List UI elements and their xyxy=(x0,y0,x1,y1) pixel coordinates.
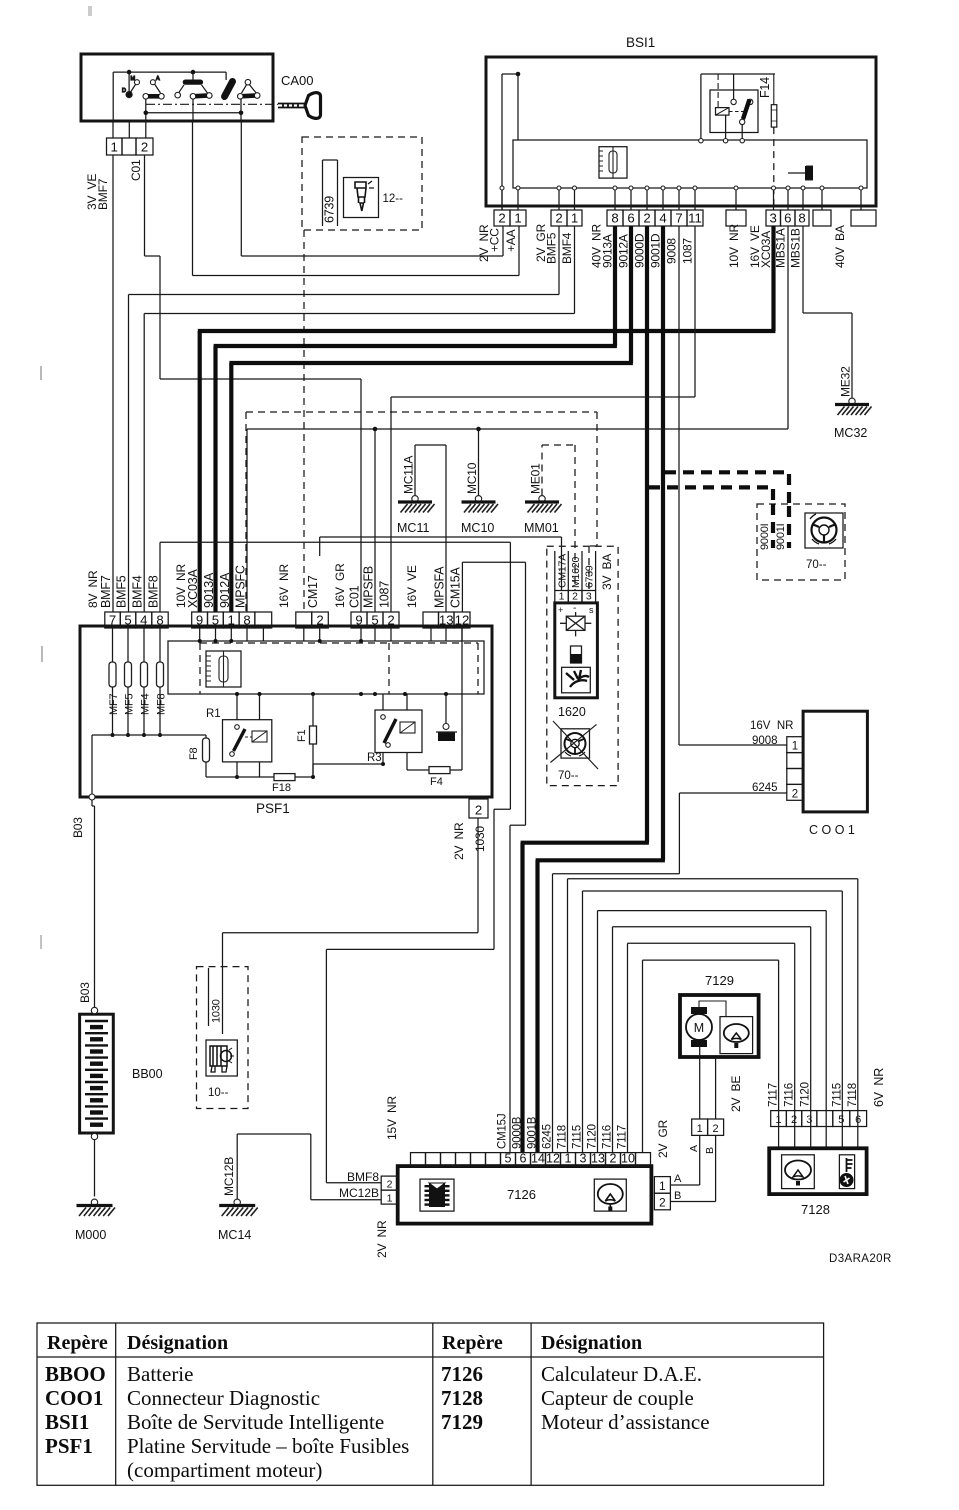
svg-text:2: 2 xyxy=(387,1179,393,1191)
svg-text:+: + xyxy=(558,605,563,615)
svg-text:Moteur d’assistance: Moteur d’assistance xyxy=(541,1410,710,1434)
wire MBS1B to ground MC32 xyxy=(802,226,804,313)
dashed heavy branch 9000I to 70-- xyxy=(649,485,773,489)
svg-text:1: 1 xyxy=(565,1152,572,1166)
svg-text:1087: 1087 xyxy=(681,238,695,264)
svg-text:MPSFA: MPSFA xyxy=(433,566,447,608)
alternator icon 10-- xyxy=(206,1040,237,1076)
svg-text:M: M xyxy=(694,1021,704,1035)
wire 9000D (heavy) down to 7126 xyxy=(645,226,649,843)
svg-text:F8: F8 xyxy=(188,747,200,760)
svg-text:C01: C01 xyxy=(348,585,362,608)
svg-text:1: 1 xyxy=(697,1123,703,1135)
svg-text:MC10: MC10 xyxy=(465,462,479,494)
svg-text:R3: R3 xyxy=(367,752,382,764)
key symbol of CA00 xyxy=(278,93,321,119)
svg-text:1: 1 xyxy=(571,211,578,226)
svg-text:8V NR: 8V NR xyxy=(86,570,100,608)
steering wheel icon in 70-- xyxy=(805,513,843,548)
wire 7116 xyxy=(612,927,614,1153)
svg-text:MC10: MC10 xyxy=(461,521,494,535)
svg-text:M: M xyxy=(131,76,136,82)
svg-text:CM17A: CM17A xyxy=(557,554,569,588)
svg-text:BMF8: BMF8 xyxy=(147,575,161,608)
svg-text:2V NR: 2V NR xyxy=(375,1220,389,1258)
svg-text:10V NR: 10V NR xyxy=(174,564,188,608)
svg-text:9000D: 9000D xyxy=(633,233,647,268)
7128 pin stubs xyxy=(778,1127,780,1149)
BSI1 connector 16V VE (3,6,8) xyxy=(766,210,781,226)
wire 9001D (heavy) down to 7126 xyxy=(661,226,665,860)
svg-text:7117: 7117 xyxy=(768,1083,780,1107)
7126 right connector cells 1/2 xyxy=(654,1177,670,1194)
svg-text:A: A xyxy=(688,1145,700,1152)
svg-text:2: 2 xyxy=(387,613,394,628)
svg-text:ME32: ME32 xyxy=(839,366,853,397)
svg-text:MC11A: MC11A xyxy=(402,456,416,494)
svg-text:+AA: +AA xyxy=(504,229,518,252)
svg-text:10--: 10-- xyxy=(208,1087,229,1099)
svg-text:Connecteur Diagnostic: Connecteur Diagnostic xyxy=(127,1386,320,1410)
svg-text:2: 2 xyxy=(572,590,578,602)
svg-text:2: 2 xyxy=(316,613,323,628)
svg-text:10V NR: 10V NR xyxy=(727,224,741,268)
svg-text:10: 10 xyxy=(621,1152,635,1166)
svg-text:7117: 7117 xyxy=(616,1125,628,1149)
svg-text:C01: C01 xyxy=(129,159,143,181)
PSF1 connector 16V VE (-,13,12) xyxy=(423,612,439,628)
svg-text:6245: 6245 xyxy=(541,1124,553,1149)
svg-text:2: 2 xyxy=(475,803,482,818)
svg-text:7116: 7116 xyxy=(601,1125,613,1149)
motor 7129 box xyxy=(680,995,759,1057)
wire 6245 from 7126 to COO1 xyxy=(552,874,554,1153)
CA00 lower internal wire xyxy=(145,99,147,138)
svg-text:F1: F1 xyxy=(296,729,308,742)
svg-text:Platine Servitude – boîte Fusi: Platine Servitude – boîte Fusibles xyxy=(127,1434,409,1458)
svg-text:3: 3 xyxy=(586,590,592,602)
svg-text:BB00: BB00 xyxy=(132,1067,163,1081)
svg-text:15V NR: 15V NR xyxy=(385,1096,399,1140)
PSF1 connector 16V GR (9,5,2) xyxy=(351,612,367,628)
svg-text:(compartiment moteur): (compartiment moteur) xyxy=(127,1458,322,1482)
svg-text:2: 2 xyxy=(792,788,798,800)
wire 9008 to COO1 xyxy=(678,226,680,745)
torque sensor 7128 box xyxy=(769,1148,866,1194)
svg-text:7120: 7120 xyxy=(586,1124,598,1149)
BSI1 pin stubs to connectors xyxy=(501,190,503,210)
svg-text:70--: 70-- xyxy=(558,770,579,782)
svg-text:9001B: 9001B xyxy=(526,1116,538,1149)
svg-text:D3ARA20R: D3ARA20R xyxy=(829,1253,892,1265)
BSI1 connector blank box xyxy=(813,210,831,226)
svg-text:7126: 7126 xyxy=(441,1362,483,1386)
injector icon 12-- xyxy=(344,178,379,218)
wire to ground MC10 xyxy=(478,429,480,496)
svg-text:70--: 70-- xyxy=(806,559,827,571)
svg-text:9013A: 9013A xyxy=(202,572,216,608)
svg-text:MC11: MC11 xyxy=(397,521,429,535)
svg-text:2: 2 xyxy=(610,1152,617,1166)
svg-text:BSI1: BSI1 xyxy=(626,35,655,50)
svg-text:9013A: 9013A xyxy=(601,234,615,268)
svg-text:8: 8 xyxy=(243,613,250,628)
svg-text:R1: R1 xyxy=(206,708,221,720)
7128 connector cells xyxy=(771,1111,787,1127)
wire 1087 xyxy=(694,226,696,397)
PSF1 fuse icon xyxy=(206,651,241,687)
svg-text:6739: 6739 xyxy=(323,196,337,223)
svg-text:7129: 7129 xyxy=(705,973,734,988)
svg-text:M000: M000 xyxy=(75,1228,106,1242)
svg-text:BMF5: BMF5 xyxy=(545,232,559,264)
CA00 internal wire top rail xyxy=(113,71,226,73)
svg-text:8: 8 xyxy=(156,613,163,628)
svg-text:13: 13 xyxy=(591,1152,605,1166)
svg-text:CM17: CM17 xyxy=(306,575,320,608)
wire B03 to battery xyxy=(91,800,93,806)
svg-text:BMF7: BMF7 xyxy=(96,178,110,210)
PSF1 connector 10V NR (9,5,1,8,-) xyxy=(192,612,208,628)
svg-text:16V NR: 16V NR xyxy=(277,564,291,608)
ground MC32 xyxy=(849,398,855,404)
COO1 pin cells xyxy=(787,737,803,753)
svg-text:MM01: MM01 xyxy=(524,521,559,535)
svg-text:5: 5 xyxy=(838,1114,844,1126)
svg-text:16V NR: 16V NR xyxy=(750,720,793,732)
7126 IC icon xyxy=(420,1179,454,1211)
svg-text:7116: 7116 xyxy=(784,1083,796,1107)
svg-text:Capteur de couple: Capteur de couple xyxy=(541,1386,694,1410)
svg-text:2V GR: 2V GR xyxy=(656,1119,670,1158)
svg-text:Désignation: Désignation xyxy=(127,1332,228,1354)
svg-text:XC03A: XC03A xyxy=(186,569,200,608)
svg-text:7118: 7118 xyxy=(556,1125,568,1149)
svg-text:1: 1 xyxy=(776,1114,782,1126)
svg-text:1: 1 xyxy=(228,613,235,628)
svg-text:6245: 6245 xyxy=(752,782,778,794)
svg-text:9012A: 9012A xyxy=(218,572,232,608)
svg-text:6: 6 xyxy=(520,1152,527,1166)
svg-text:7126: 7126 xyxy=(507,1187,536,1202)
PSF1 inner dashed rect xyxy=(199,643,201,694)
BSI1 diode component xyxy=(788,172,805,174)
svg-text:B: B xyxy=(704,1147,716,1154)
1620 label columns CM17A M1620 6739 xyxy=(554,551,556,591)
7129 gauge icon xyxy=(720,1017,753,1054)
svg-text:1030: 1030 xyxy=(211,999,223,1023)
svg-text:7115: 7115 xyxy=(832,1083,844,1107)
svg-text:1: 1 xyxy=(387,1193,393,1205)
BSI1 relay and F14 feed rail xyxy=(700,74,702,140)
dashed option box 10-- (alternator 1030) xyxy=(197,967,249,1109)
svg-text:PSF1: PSF1 xyxy=(45,1434,93,1458)
svg-text:9000I: 9000I xyxy=(759,523,771,550)
svg-text:7128: 7128 xyxy=(441,1386,483,1410)
svg-text:COO1: COO1 xyxy=(45,1386,103,1410)
svg-text:2: 2 xyxy=(791,1114,797,1126)
7126 left connector cells 2/1 xyxy=(381,1176,398,1190)
svg-text:11: 11 xyxy=(688,211,702,226)
svg-text:1: 1 xyxy=(659,1179,666,1193)
7129 motor M xyxy=(686,1014,712,1040)
BSI1 connector 40V BA (blank) xyxy=(851,210,876,226)
svg-text:13: 13 xyxy=(439,613,454,628)
svg-text:MC12B: MC12B xyxy=(222,1157,236,1196)
svg-text:B: B xyxy=(674,1190,681,1202)
wire CM15A from PSF1 pin E12 to 7126 CM15J xyxy=(461,562,463,612)
svg-text:6: 6 xyxy=(627,211,634,226)
7128 sensor icon xyxy=(839,1155,854,1189)
wire C01 from C01 pin2 to PSF1 xyxy=(144,155,146,256)
svg-text:9: 9 xyxy=(355,613,362,628)
svg-text:CM15A: CM15A xyxy=(449,566,463,608)
svg-text:9001I: 9001I xyxy=(775,523,787,550)
ground MC10 xyxy=(475,496,481,502)
BSI1 fuse icon xyxy=(599,147,627,178)
svg-text:BBOO: BBOO xyxy=(45,1362,106,1386)
CA00 switch 1 (M/A/D) xyxy=(128,72,130,95)
svg-text:F18: F18 xyxy=(272,782,291,794)
svg-text:12--: 12-- xyxy=(383,193,404,205)
svg-text:2V NR: 2V NR xyxy=(452,822,466,860)
PSF1 connector 8V NR (7,5,4,8) xyxy=(105,612,121,628)
svg-text:1: 1 xyxy=(514,211,521,226)
svg-text:5: 5 xyxy=(505,1152,512,1166)
BSI1 wire +AA/+CC riser xyxy=(501,74,503,210)
svg-text:7129: 7129 xyxy=(441,1410,483,1434)
svg-text:6: 6 xyxy=(784,211,791,226)
crossed steering icon 70-- xyxy=(561,729,590,758)
connector C01 below CA00 xyxy=(107,138,123,155)
wire 1030 from PSF1 to box 10-- xyxy=(477,818,479,933)
svg-text:PSF1: PSF1 xyxy=(256,801,290,816)
svg-text:1087: 1087 xyxy=(378,581,392,608)
svg-text:3: 3 xyxy=(770,211,777,226)
svg-text:1: 1 xyxy=(792,741,798,753)
svg-text:Calculateur D.A.E.: Calculateur D.A.E. xyxy=(541,1362,702,1386)
svg-text:16V VE: 16V VE xyxy=(405,565,419,608)
7129 wires to connector xyxy=(699,1047,701,1119)
svg-text:Repère: Repère xyxy=(442,1332,503,1354)
svg-text:2: 2 xyxy=(659,1196,666,1210)
svg-text:MF7: MF7 xyxy=(108,694,120,715)
svg-text:14: 14 xyxy=(531,1152,545,1166)
fuse F18 xyxy=(206,776,274,778)
svg-text:6739: 6739 xyxy=(584,565,596,588)
ignition switch CA00 xyxy=(81,54,273,121)
svg-text:+CC: +CC xyxy=(488,228,502,252)
wire BMF5 xyxy=(558,226,560,295)
svg-text:6: 6 xyxy=(855,1114,861,1126)
PSF1 fuses MF7 MF5 MF4 MF8 xyxy=(112,628,114,662)
dashed option box 6739 (top) xyxy=(302,137,422,230)
svg-text:8: 8 xyxy=(798,211,805,226)
svg-text:C O O 1: C O O 1 xyxy=(809,823,855,837)
1620 battery symbol xyxy=(571,646,582,663)
svg-text:s: s xyxy=(589,605,594,615)
svg-text:9012A: 9012A xyxy=(617,234,631,268)
CA00 switch 3 xyxy=(225,82,233,97)
BSI1 relay box xyxy=(710,90,758,133)
BSI1 connector 10V NR (blank) xyxy=(726,210,746,226)
1620 inner box xyxy=(555,603,598,698)
junction dots on inner rect xyxy=(198,639,202,643)
6739 label column xyxy=(322,160,324,226)
svg-text:3V BA: 3V BA xyxy=(600,554,614,590)
wires 7126 A/B to 7129 xyxy=(670,1184,699,1186)
wire CM17 to 1620 xyxy=(319,537,321,556)
dashed wire 6739 down to PSF1 xyxy=(303,230,305,612)
svg-text:7: 7 xyxy=(675,211,682,226)
dashed option box 1620 (outer) xyxy=(547,546,618,785)
calculator 7126 box xyxy=(398,1166,652,1224)
svg-text:MPSFC: MPSFC xyxy=(234,565,248,608)
svg-text:MBS1B: MBS1B xyxy=(789,228,803,268)
svg-text:XC03A: XC03A xyxy=(759,231,773,268)
svg-text:40V BA: 40V BA xyxy=(833,225,847,268)
BSI1 bottom rail pin circles xyxy=(500,186,504,190)
wire 7120 xyxy=(597,911,599,1153)
svg-text:MF8: MF8 xyxy=(156,694,168,715)
wire 9012A (heavy) xyxy=(629,226,633,363)
svg-text:M1620: M1620 xyxy=(570,557,582,588)
svg-text:BMF5: BMF5 xyxy=(115,575,129,608)
diagnostic connector COO1 xyxy=(803,711,867,812)
BSI1 relay coil xyxy=(716,108,730,116)
legend table xyxy=(37,1323,824,1485)
CA00 mechanical link to key xyxy=(146,103,278,105)
svg-text:BMF8: BMF8 xyxy=(347,1170,379,1184)
svg-text:F4: F4 xyxy=(430,776,443,788)
svg-text:Batterie: Batterie xyxy=(127,1362,193,1386)
wire spare to 7128 pin1 xyxy=(642,960,644,1153)
svg-text:7115: 7115 xyxy=(571,1125,583,1149)
svg-text:MF4: MF4 xyxy=(140,694,152,715)
svg-text:B03: B03 xyxy=(71,817,85,838)
7129 connector cells 1/2 xyxy=(692,1119,708,1135)
PSF1 bottom connector 2V NR (1030) xyxy=(469,799,488,818)
wire 7118 xyxy=(567,879,569,1153)
wire 9013A (heavy) xyxy=(613,226,617,346)
wire MBS1A / ground bus xyxy=(787,226,789,429)
ground MM01 xyxy=(539,496,545,502)
1620 clip icon xyxy=(562,667,591,693)
ground MC14 xyxy=(236,1134,238,1201)
battery BB00 xyxy=(80,1014,114,1133)
svg-text:5: 5 xyxy=(212,613,219,628)
1620 connector cells 1 2 3 xyxy=(555,591,569,603)
dashed heavy branch 9001I to 70-- xyxy=(665,470,789,474)
PSF1 pin wires into inner rect xyxy=(199,628,201,641)
svg-text:2: 2 xyxy=(643,211,650,226)
svg-text:9008: 9008 xyxy=(665,238,679,264)
svg-text:7128: 7128 xyxy=(801,1202,830,1217)
1620 lamp symbol xyxy=(560,612,591,636)
svg-text:B03: B03 xyxy=(78,982,92,1003)
BSI1 relay contact xyxy=(731,99,736,104)
fuse F4 xyxy=(407,769,429,771)
svg-text:MC12B: MC12B xyxy=(339,1186,379,1200)
svg-text:1: 1 xyxy=(559,590,565,602)
BSI1 connector 2V GR (BMF5,BMF4) xyxy=(551,210,567,226)
wire XC03A (heavy) xyxy=(771,226,775,331)
7126 gauge icon xyxy=(594,1179,626,1211)
svg-text:CM15J: CM15J xyxy=(496,1114,508,1149)
svg-text:MC32: MC32 xyxy=(834,426,867,440)
PSF1 inner bus rect xyxy=(168,641,484,694)
wire +AA from CA00 to BSI1 xyxy=(192,121,194,276)
svg-text:A: A xyxy=(674,1173,682,1185)
svg-text:2: 2 xyxy=(555,211,562,226)
svg-text:ME01: ME01 xyxy=(529,463,543,494)
svg-text:BMF4: BMF4 xyxy=(560,232,574,264)
BSI1 connector 40V NR xyxy=(607,210,623,226)
wire BMF4 xyxy=(574,226,576,314)
svg-text:9008: 9008 xyxy=(752,735,778,747)
svg-text:F14: F14 xyxy=(758,77,772,98)
ground M000 xyxy=(91,1199,97,1205)
svg-text:6V NR: 6V NR xyxy=(872,1068,886,1107)
svg-text:2V BE: 2V BE xyxy=(729,1076,743,1112)
wire 7115 xyxy=(582,891,584,1153)
7128 gauge icon xyxy=(782,1155,815,1189)
svg-text:2: 2 xyxy=(498,211,505,226)
BSI1 box xyxy=(486,57,876,206)
PSF1 bus to battery B03 xyxy=(92,734,206,736)
1030 label column xyxy=(208,968,210,1026)
svg-text:D: D xyxy=(122,88,126,94)
svg-text:BSI1: BSI1 xyxy=(45,1410,89,1434)
svg-text:9: 9 xyxy=(196,613,203,628)
svg-text:Repère: Repère xyxy=(47,1332,108,1354)
svg-text:CA00: CA00 xyxy=(281,73,314,88)
svg-text:7118: 7118 xyxy=(847,1083,859,1107)
svg-text:1620: 1620 xyxy=(558,705,586,719)
wire 7117 xyxy=(627,943,629,1152)
svg-text:16V GR: 16V GR xyxy=(333,563,347,608)
svg-text:5: 5 xyxy=(124,613,131,628)
dashed option rectangle (middle) xyxy=(246,411,597,413)
wire battery to ground M000 xyxy=(94,1140,96,1197)
svg-text:BMF4: BMF4 xyxy=(131,575,145,608)
ground MC11 xyxy=(412,496,418,502)
svg-text:MC14: MC14 xyxy=(218,1228,251,1242)
dashed wire ME01 from ground MM01 to 1620 xyxy=(541,445,543,496)
svg-text:A: A xyxy=(156,76,160,82)
dashed option box 70-- xyxy=(757,504,845,580)
svg-text:1: 1 xyxy=(111,140,118,155)
PSF1 box xyxy=(80,626,492,797)
svg-text:9000B: 9000B xyxy=(511,1116,523,1149)
wire BMF8 from PSF1 pin A8 to 7126 xyxy=(159,542,161,612)
7126 numbered cells xyxy=(501,1153,516,1167)
svg-text:3: 3 xyxy=(580,1152,587,1166)
svg-text:7120: 7120 xyxy=(800,1082,812,1107)
svg-text:3: 3 xyxy=(806,1114,812,1126)
svg-text:7: 7 xyxy=(109,613,116,628)
svg-text:4: 4 xyxy=(140,613,147,628)
svg-text:Désignation: Désignation xyxy=(541,1332,642,1354)
svg-text:8: 8 xyxy=(611,211,618,226)
svg-text:12: 12 xyxy=(546,1152,560,1166)
PSF1 connector 16V NR (-,2) xyxy=(296,612,312,628)
svg-text:BMF7: BMF7 xyxy=(99,575,113,608)
wire MPSFB from ground bus xyxy=(374,429,376,612)
wire MPSFA to ground MC11 xyxy=(445,445,447,612)
PSF1 internal ground xyxy=(445,694,447,724)
svg-text:MPSFB: MPSFB xyxy=(362,566,376,608)
